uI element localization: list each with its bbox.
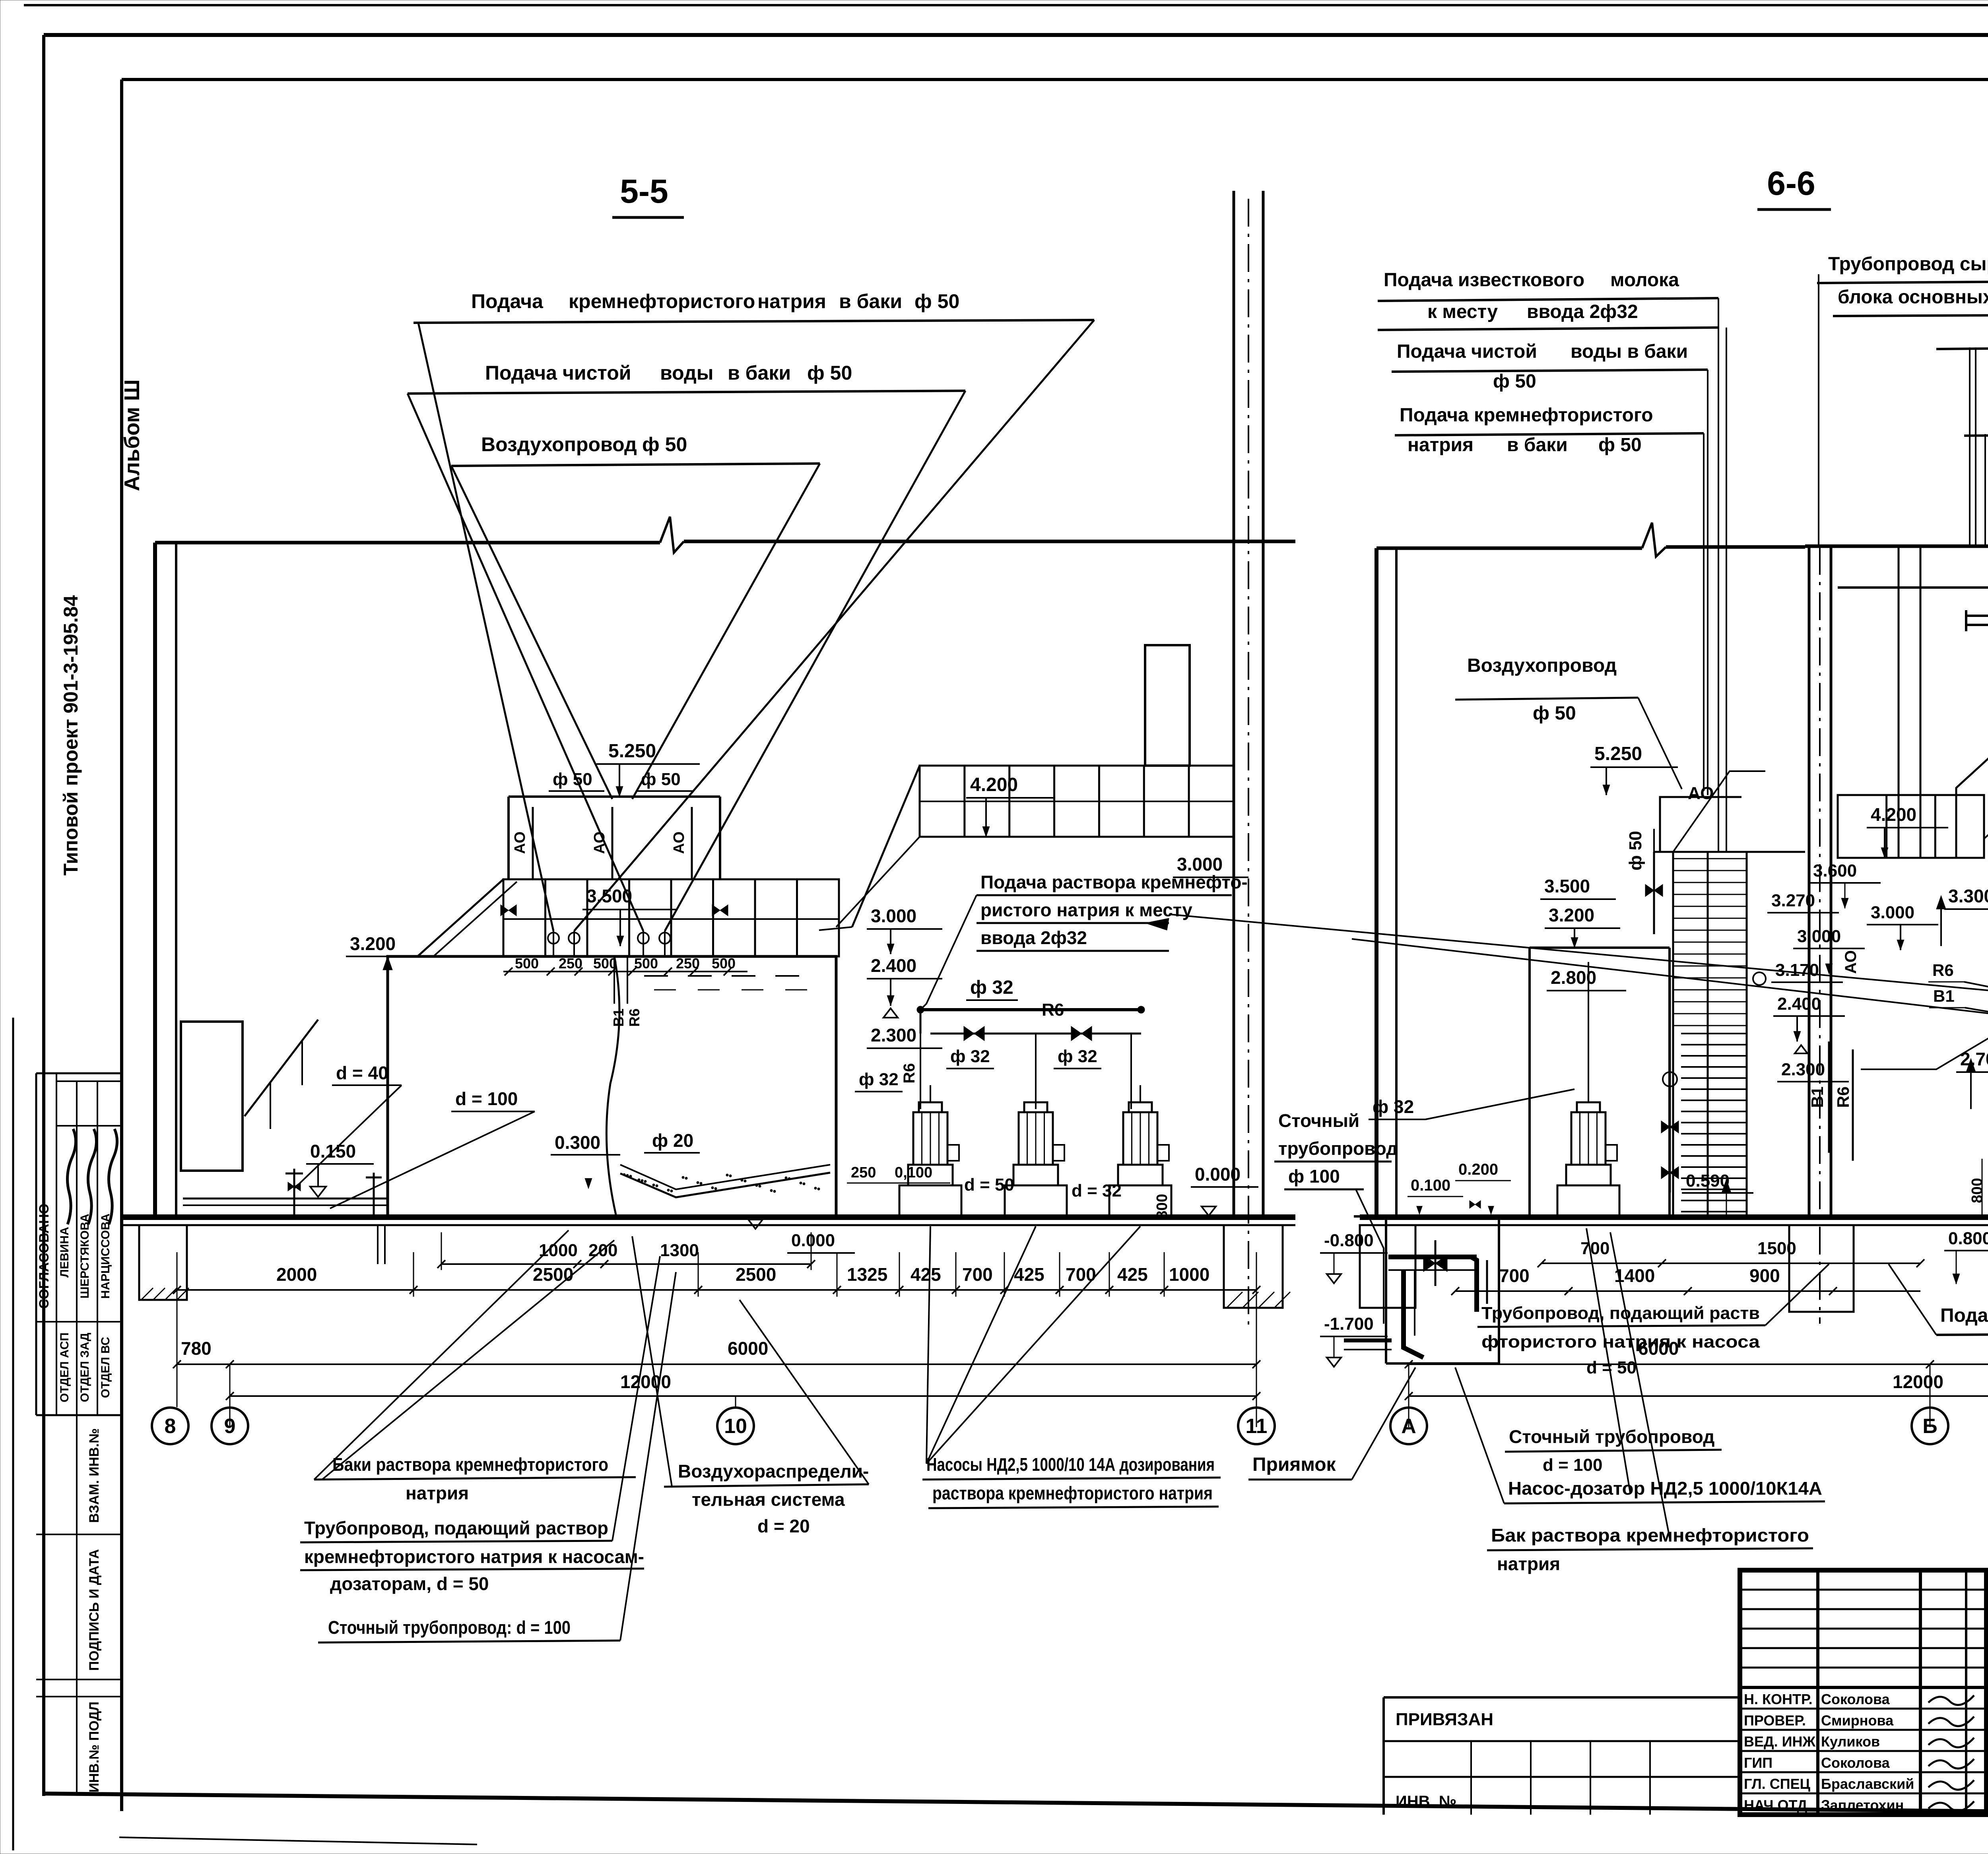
svg-text:натрия: натрия xyxy=(1497,1553,1560,1574)
svg-text:2000: 2000 xyxy=(276,1264,317,1285)
svg-text:АО: АО xyxy=(591,832,608,854)
svg-text:Смирнова: Смирнова xyxy=(1821,1712,1894,1728)
svg-text:кремнефтористого натрия к н: кремнефтористого натрия к насосам- xyxy=(304,1546,644,1567)
svg-text:500: 500 xyxy=(515,955,539,972)
svg-text:700: 700 xyxy=(962,1264,993,1285)
svg-text:ГЛ. СПЕЦ: ГЛ. СПЕЦ xyxy=(1744,1776,1811,1792)
svg-text:тельная система: тельная система xyxy=(692,1489,845,1510)
svg-text:Насос-дозатор НД2,5 1000/10К14: Насос-дозатор НД2,5 1000/10К14А xyxy=(1508,1478,1822,1499)
svg-text:12000: 12000 xyxy=(620,1371,671,1392)
svg-text:11: 11 xyxy=(1246,1415,1268,1438)
svg-text:d = 50: d = 50 xyxy=(1586,1358,1637,1377)
svg-text:ф 50: ф 50 xyxy=(553,770,592,789)
svg-text:Подача чистой: Подача чистой xyxy=(1397,341,1537,362)
svg-text:4.200: 4.200 xyxy=(970,774,1018,795)
svg-text:ШЕРСТЯКОВА: ШЕРСТЯКОВА xyxy=(78,1214,91,1298)
svg-text:Подача кремнефтористого: Подача кремнефтористого xyxy=(1400,405,1653,426)
svg-text:1300: 1300 xyxy=(660,1241,699,1260)
svg-text:425: 425 xyxy=(1117,1264,1148,1285)
svg-text:А: А xyxy=(1401,1415,1416,1438)
svg-text:ф 32: ф 32 xyxy=(970,977,1013,998)
svg-text:6-6: 6-6 xyxy=(1767,165,1815,202)
svg-text:Соколова: Соколова xyxy=(1821,1691,1890,1707)
svg-text:425: 425 xyxy=(1014,1264,1044,1285)
svg-text:в баки: в баки xyxy=(839,290,902,312)
svg-text:425: 425 xyxy=(911,1264,941,1285)
svg-text:Подача: Подача xyxy=(471,290,544,312)
svg-text:в баки: в баки xyxy=(1507,434,1568,456)
svg-text:900: 900 xyxy=(1749,1265,1780,1286)
svg-text:Сточный трубопровод: d = 100: Сточный трубопровод: d = 100 xyxy=(328,1617,571,1638)
svg-text:10: 10 xyxy=(724,1415,747,1438)
svg-text:кремнефтористого: кремнефтористого xyxy=(569,290,755,312)
svg-text:НАЧ.ОТД.: НАЧ.ОТД. xyxy=(1744,1797,1811,1813)
svg-text:ПРОВЕР.: ПРОВЕР. xyxy=(1744,1712,1806,1728)
svg-text:-0.800: -0.800 xyxy=(1324,1231,1374,1250)
svg-text:500: 500 xyxy=(712,955,736,972)
svg-text:Трубопровод сырой воды ф150: Трубопровод сырой воды ф150 из xyxy=(1828,254,1988,275)
svg-text:R6: R6 xyxy=(1932,961,1954,979)
svg-text:Подача чистой: Подача чистой xyxy=(1940,1305,1988,1326)
svg-text:натрия: натрия xyxy=(1408,434,1474,456)
svg-text:АО: АО xyxy=(1842,950,1860,974)
svg-text:3.300: 3.300 xyxy=(1948,886,1988,906)
svg-text:5.250: 5.250 xyxy=(608,741,656,762)
svg-text:R6: R6 xyxy=(626,1008,643,1027)
svg-text:ЛЕВИНА: ЛЕВИНА xyxy=(58,1227,71,1278)
svg-text:d = 32: d = 32 xyxy=(1072,1181,1122,1200)
svg-text:Приямок: Приямок xyxy=(1252,1454,1336,1475)
svg-text:Подача чистой: Подача чистой xyxy=(485,362,631,384)
svg-text:АО: АО xyxy=(512,832,528,854)
svg-text:ПРИВЯЗАН: ПРИВЯЗАН xyxy=(1396,1710,1493,1729)
svg-text:d = 50: d = 50 xyxy=(964,1175,1014,1195)
svg-text:R6: R6 xyxy=(1042,1000,1064,1020)
svg-text:Браславский: Браславский xyxy=(1821,1776,1914,1792)
svg-text:2500: 2500 xyxy=(736,1264,776,1285)
svg-text:1000: 1000 xyxy=(539,1241,578,1260)
svg-text:800: 800 xyxy=(1154,1194,1171,1219)
svg-text:ф 50: ф 50 xyxy=(807,362,852,384)
svg-text:фтористого натрия к насос: фтористого натрия к насоса xyxy=(1481,1332,1760,1352)
svg-text:Типовой проект 901-3-195.84: Типовой проект 901-3-195.84 xyxy=(60,595,82,876)
svg-text:0.000: 0.000 xyxy=(791,1231,835,1250)
svg-text:ИНВ.№ ПОДЛ: ИНВ.№ ПОДЛ xyxy=(87,1702,102,1793)
svg-text:к месту: к месту xyxy=(1427,301,1498,322)
svg-text:0.100: 0.100 xyxy=(1411,1177,1450,1194)
svg-text:ф 50: ф 50 xyxy=(1598,434,1642,456)
svg-text:ф 50: ф 50 xyxy=(1493,371,1536,392)
svg-text:d = 40: d = 40 xyxy=(336,1063,388,1083)
svg-text:НАРЦИССОВА: НАРЦИССОВА xyxy=(99,1214,112,1299)
svg-text:d = 100: d = 100 xyxy=(455,1088,518,1109)
svg-text:d = 100: d = 100 xyxy=(1543,1455,1602,1475)
svg-text:Бак раствора кремнефтористо: Бак раствора кремнефтористого xyxy=(1491,1525,1809,1546)
svg-text:трубопровод: трубопровод xyxy=(1278,1138,1398,1159)
svg-text:3.170: 3.170 xyxy=(1775,960,1819,980)
svg-text:молока: молока xyxy=(1610,270,1679,291)
svg-text:Воздухораспредели-: Воздухораспредели- xyxy=(678,1461,869,1482)
svg-text:-1.700: -1.700 xyxy=(1324,1314,1374,1334)
svg-text:в баки: в баки xyxy=(728,362,791,384)
svg-text:0.000: 0.000 xyxy=(1195,1164,1241,1185)
svg-text:3.000: 3.000 xyxy=(871,906,916,926)
svg-text:Трубопровод, подающий раство: Трубопровод, подающий раствор xyxy=(304,1518,608,1538)
svg-text:блока основных сооружений (: блока основных сооружений ( отм. оси 3.0… xyxy=(1838,287,1988,308)
svg-text:ф 32: ф 32 xyxy=(1058,1047,1097,1066)
svg-text:ввода 2ф32: ввода 2ф32 xyxy=(980,927,1087,948)
svg-text:ф 20: ф 20 xyxy=(652,1130,693,1151)
svg-text:Трубопровод, подающий раств: Трубопровод, подающий раств xyxy=(1481,1303,1760,1323)
svg-text:780: 780 xyxy=(181,1338,212,1359)
svg-text:2.800: 2.800 xyxy=(1551,967,1596,988)
svg-text:2.300: 2.300 xyxy=(1781,1060,1825,1079)
svg-text:ОТДЕЛ ЗАД: ОТДЕЛ ЗАД xyxy=(78,1333,91,1402)
svg-text:0.200: 0.200 xyxy=(1458,1161,1498,1178)
svg-text:Альбом Ш: Альбом Ш xyxy=(120,379,144,491)
svg-text:АО: АО xyxy=(671,832,687,854)
svg-text:R6: R6 xyxy=(901,1063,918,1083)
svg-text:ГИП: ГИП xyxy=(1744,1755,1773,1771)
svg-text:Насосы НД2,5 1000/10 14А дози: Насосы НД2,5 1000/10 14А дозирования xyxy=(926,1454,1215,1475)
svg-text:Подача известкового: Подача известкового xyxy=(1384,270,1584,291)
svg-text:раствора кремнефтористого на: раствора кремнефтористого натрия xyxy=(932,1483,1213,1503)
svg-text:3.500: 3.500 xyxy=(1544,876,1590,896)
svg-text:Сточный: Сточный xyxy=(1278,1110,1359,1131)
svg-text:ф 32: ф 32 xyxy=(950,1047,990,1066)
svg-text:АО: АО xyxy=(1688,783,1714,803)
svg-text:0,100: 0,100 xyxy=(895,1164,932,1181)
svg-text:5.250: 5.250 xyxy=(1594,743,1642,764)
svg-text:700: 700 xyxy=(1580,1239,1609,1258)
svg-text:Б: Б xyxy=(1922,1415,1937,1438)
svg-text:ввода 2ф32: ввода 2ф32 xyxy=(1527,301,1638,322)
svg-text:1325: 1325 xyxy=(847,1264,887,1285)
svg-text:дозаторам, d = 50: дозаторам, d = 50 xyxy=(330,1573,489,1594)
svg-text:Баки раствора кремнефтористо: Баки раствора кремнефтористого xyxy=(332,1454,608,1475)
svg-text:натрия: натрия xyxy=(406,1483,469,1503)
svg-text:СОГЛАСОВАНО: СОГЛАСОВАНО xyxy=(37,1204,52,1309)
svg-text:3.200: 3.200 xyxy=(350,933,396,954)
svg-text:0.150: 0.150 xyxy=(310,1141,356,1162)
svg-text:3.270: 3.270 xyxy=(1771,891,1815,910)
svg-text:1500: 1500 xyxy=(1757,1239,1796,1258)
svg-text:ВЗАМ. ИНВ.№: ВЗАМ. ИНВ.№ xyxy=(87,1428,102,1523)
svg-text:В1: В1 xyxy=(1808,1086,1827,1108)
svg-text:В1: В1 xyxy=(1933,987,1955,1005)
svg-text:ф 50: ф 50 xyxy=(641,770,681,789)
svg-text:d = 20: d = 20 xyxy=(757,1516,810,1536)
svg-text:800: 800 xyxy=(1969,1178,1986,1203)
svg-text:ф 32: ф 32 xyxy=(1373,1096,1414,1117)
svg-text:0.590: 0.590 xyxy=(1686,1171,1730,1191)
svg-text:ф 50: ф 50 xyxy=(642,433,687,456)
svg-text:1000: 1000 xyxy=(1169,1264,1209,1285)
svg-text:4.200: 4.200 xyxy=(1871,804,1916,825)
svg-text:ОТДЕЛ ВС: ОТДЕЛ ВС xyxy=(99,1337,112,1398)
svg-text:2.300: 2.300 xyxy=(871,1025,916,1045)
svg-text:ристого натрия к месту: ристого натрия к месту xyxy=(980,900,1192,920)
svg-text:Куликов: Куликов xyxy=(1821,1734,1880,1750)
svg-text:Воздухопровод: Воздухопровод xyxy=(1467,655,1617,676)
svg-text:3.000: 3.000 xyxy=(1871,903,1914,922)
svg-text:2.400: 2.400 xyxy=(1777,994,1821,1014)
svg-text:ф 50: ф 50 xyxy=(914,290,959,312)
svg-text:Подача раствора кремнефто-: Подача раствора кремнефто- xyxy=(980,872,1248,892)
svg-text:5-5: 5-5 xyxy=(620,173,668,210)
svg-text:9: 9 xyxy=(224,1415,236,1438)
svg-text:ПОДПИСЬ И ДАТА: ПОДПИСЬ И ДАТА xyxy=(87,1549,102,1671)
svg-text:натрия: натрия xyxy=(757,290,826,312)
svg-text:3.000: 3.000 xyxy=(1797,927,1841,946)
svg-text:ИНВ. №: ИНВ. № xyxy=(1396,1793,1456,1810)
svg-text:воды в баки: воды в баки xyxy=(1571,341,1688,362)
svg-text:3.500: 3.500 xyxy=(586,886,632,906)
svg-text:0.300: 0.300 xyxy=(555,1132,600,1153)
svg-text:Н. КОНТР.: Н. КОНТР. xyxy=(1744,1691,1813,1707)
svg-text:ВЕД. ИНЖ: ВЕД. ИНЖ xyxy=(1744,1734,1816,1750)
svg-text:700: 700 xyxy=(1499,1265,1530,1286)
svg-text:3.200: 3.200 xyxy=(1549,905,1594,925)
svg-text:ф 50: ф 50 xyxy=(1533,703,1576,724)
svg-text:воды: воды xyxy=(660,362,713,384)
svg-text:12000: 12000 xyxy=(1893,1371,1943,1392)
svg-text:R6: R6 xyxy=(1834,1086,1852,1108)
svg-text:ф 50: ф 50 xyxy=(1626,831,1645,871)
svg-text:В1: В1 xyxy=(610,1008,627,1027)
svg-text:8: 8 xyxy=(165,1415,176,1438)
svg-text:250: 250 xyxy=(851,1164,876,1181)
svg-text:ф 100: ф 100 xyxy=(1288,1166,1340,1187)
svg-text:500: 500 xyxy=(634,955,658,972)
svg-text:ОТДЕЛ АСП: ОТДЕЛ АСП xyxy=(58,1332,71,1402)
svg-text:2500: 2500 xyxy=(533,1264,573,1285)
svg-text:Соколова: Соколова xyxy=(1821,1755,1890,1771)
svg-text:2.400: 2.400 xyxy=(871,955,916,976)
svg-text:Воздухопровод: Воздухопровод xyxy=(481,433,637,456)
svg-text:ф 32: ф 32 xyxy=(859,1070,899,1089)
svg-text:0.800: 0.800 xyxy=(1948,1229,1988,1248)
svg-text:Сточный трубопровод: Сточный трубопровод xyxy=(1509,1426,1714,1447)
svg-text:6000: 6000 xyxy=(728,1338,768,1359)
svg-text:250: 250 xyxy=(559,955,582,972)
svg-text:3.600: 3.600 xyxy=(1813,861,1857,880)
svg-text:Заплетохин: Заплетохин xyxy=(1821,1797,1904,1813)
